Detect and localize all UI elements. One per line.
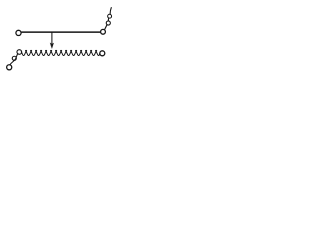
wiper arrow stem — [51, 33, 53, 44]
curl loop (lower-left lead) — [12, 56, 16, 60]
curl loop (top-right lead) — [108, 14, 112, 18]
wire (wiper lead, horizontal) — [22, 31, 101, 33]
wire (curl to terminal T4) — [107, 18, 109, 21]
wire (top-right lead from edge) — [110, 8, 111, 15]
wire (diagonal to knot) — [105, 25, 107, 30]
terminal T2 (right end of element) — [100, 51, 105, 56]
terminal T4 (small, top-right) — [106, 21, 110, 25]
terminal T3 (bottom-left) — [7, 65, 12, 70]
element left end loop — [17, 50, 22, 55]
knot circle (junction at end of wiper wire) — [101, 29, 106, 34]
wire (lower-left lead stroke) — [10, 53, 18, 64]
wiper arrowhead — [50, 43, 53, 48]
resistor R (wavy element) — [21, 50, 100, 55]
terminal T1 (left, wiper lead) — [16, 30, 21, 35]
